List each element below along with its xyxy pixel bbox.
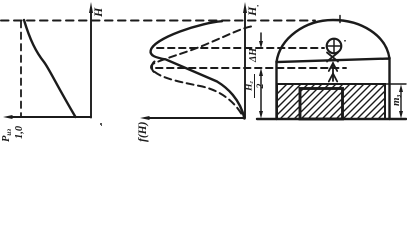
svg-text:Hг: Hг bbox=[245, 81, 256, 92]
svg-text:H: H bbox=[91, 7, 105, 18]
svg-text:f(H): f(H) bbox=[137, 121, 149, 142]
svg-text:H: H bbox=[245, 6, 259, 17]
svg-text:ΔH: ΔH bbox=[248, 47, 259, 63]
svg-text:mз: mз bbox=[390, 94, 403, 106]
svg-text:1,0: 1,0 bbox=[14, 125, 25, 139]
svg-text:2: 2 bbox=[256, 83, 266, 89]
svg-text:Pиз: Pиз bbox=[1, 129, 13, 142]
